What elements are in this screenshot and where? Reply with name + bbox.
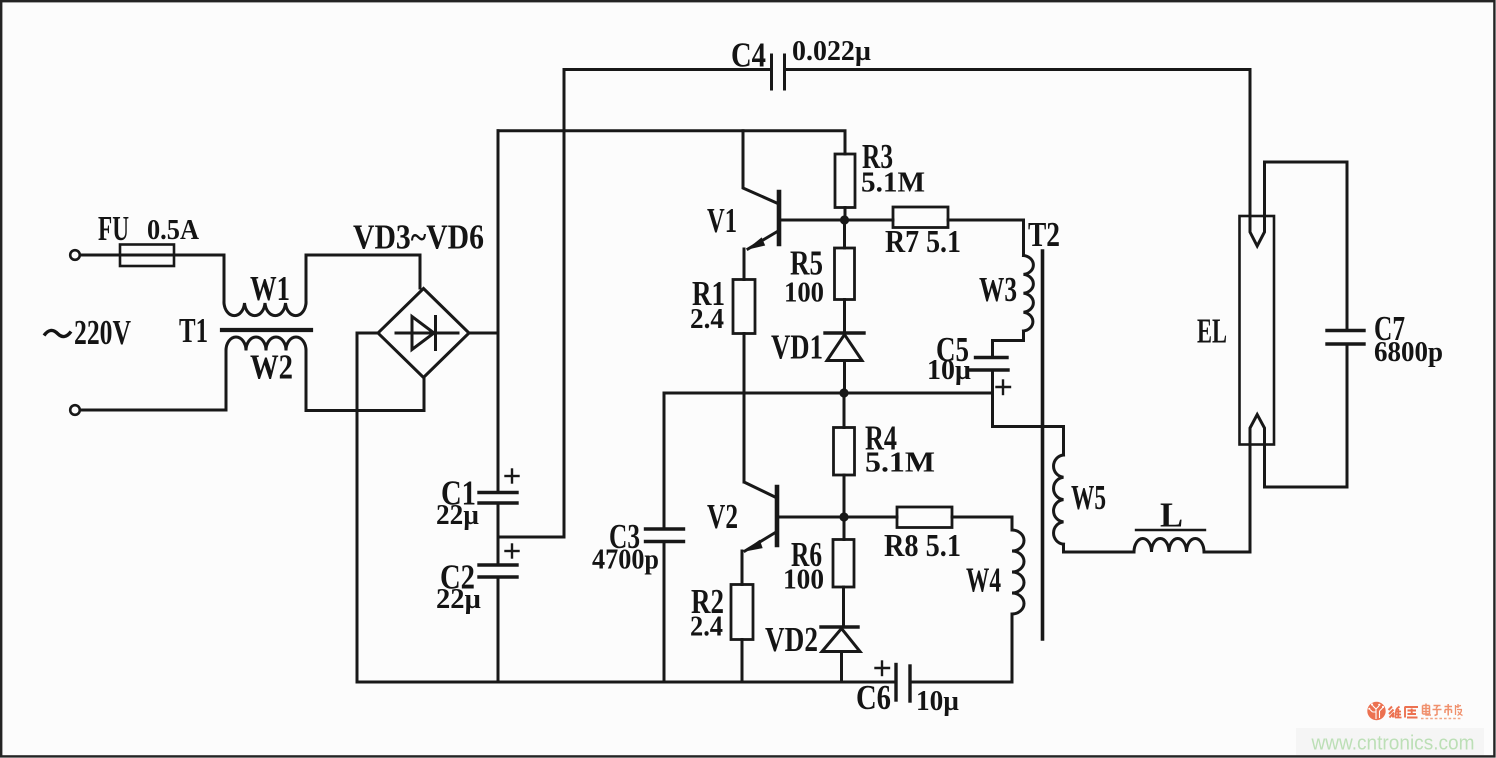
wire C4 riser vertical bbox=[563, 70, 566, 538]
diode VD2 bbox=[821, 627, 860, 652]
svg-text:5.1M: 5.1M bbox=[861, 168, 925, 199]
lamp bottom filament bbox=[1250, 415, 1265, 445]
svg-text:R7 5.1: R7 5.1 bbox=[885, 223, 961, 259]
wire C2 to bottom rail bbox=[497, 577, 500, 682]
wire C3 bottom to rail bbox=[663, 542, 666, 683]
wire W1 right to bridge top bbox=[306, 255, 420, 303]
svg-text:5.1M: 5.1M bbox=[865, 448, 935, 479]
wire W3 to C5 bbox=[993, 331, 1024, 358]
svg-text:L: L bbox=[1160, 497, 1183, 535]
wire R4 to node B2 bbox=[843, 475, 846, 517]
wire R7 to W3 bbox=[948, 220, 1024, 256]
wire top rail right of C4 bbox=[785, 68, 1251, 71]
bridge diode symbol bbox=[396, 317, 458, 350]
transistor V1 base wire bbox=[779, 219, 893, 222]
transformer T2 winding W5 bbox=[1054, 455, 1064, 544]
transformer T1 core bbox=[222, 328, 311, 332]
wire R8 to W4 bbox=[952, 517, 1012, 530]
svg-text:W3: W3 bbox=[979, 271, 1017, 309]
wire C1 to C2 bbox=[497, 503, 500, 565]
capacitor C3 bbox=[646, 529, 684, 542]
svg-text:VD3~VD6: VD3~VD6 bbox=[353, 219, 484, 257]
svg-text:W1: W1 bbox=[250, 270, 290, 308]
resistor R4 bbox=[834, 428, 855, 476]
svg-text:V1: V1 bbox=[707, 202, 737, 240]
svg-text:0.022µ: 0.022µ bbox=[792, 36, 871, 67]
svg-text:22µ: 22µ bbox=[436, 500, 479, 531]
wire W2 right to bridge bottom bbox=[306, 350, 424, 411]
resistor R8 bbox=[897, 507, 952, 528]
terminal input bottom bbox=[70, 405, 80, 415]
svg-text:www.cntronics.com: www.cntronics.com bbox=[1311, 733, 1475, 755]
capacitor C7 bbox=[1327, 331, 1364, 345]
bridge rectifier VD3~VD6 bbox=[378, 289, 469, 378]
wire W4 to C6 bbox=[911, 614, 1012, 682]
label ~220V bbox=[44, 330, 71, 336]
wire terminal to fuse bbox=[80, 254, 120, 257]
capacitor C6 bbox=[896, 665, 910, 702]
transistor V2 emitter bbox=[745, 532, 777, 552]
wire VD1 to node M bbox=[843, 361, 846, 394]
svg-text:10µ: 10µ bbox=[916, 686, 959, 717]
fuse FU bbox=[120, 245, 174, 267]
svg-text:T1: T1 bbox=[179, 312, 208, 350]
terminal input top bbox=[70, 250, 80, 260]
svg-text:2.4: 2.4 bbox=[690, 304, 724, 335]
watermark text dianzishichang bbox=[1421, 704, 1463, 719]
resistor R7 bbox=[893, 207, 948, 228]
wire R1 to V2 collector (crossover) bbox=[743, 334, 746, 483]
node M junction dot bbox=[839, 388, 848, 397]
resistor R3 bbox=[835, 154, 855, 208]
wire main vertical line upper bbox=[497, 131, 500, 493]
transistor V2 base wire bbox=[777, 516, 897, 519]
wire V2 emitter to R2 bbox=[741, 551, 744, 585]
wire node B2 to R6 bbox=[843, 517, 846, 540]
transformer T1 winding W2 bbox=[226, 337, 306, 351]
transformer T2 core bbox=[1041, 251, 1045, 639]
capacitor C4 bbox=[772, 55, 785, 89]
wire node M horizontal bbox=[664, 392, 993, 395]
svg-text:6800p: 6800p bbox=[1374, 337, 1443, 368]
svg-text:C6: C6 bbox=[856, 679, 891, 717]
watermark text weiku bbox=[1389, 707, 1419, 718]
wire C5 to W5 bbox=[993, 370, 1064, 455]
svg-text:W4: W4 bbox=[966, 562, 1001, 600]
wire terminal to W2 left bbox=[80, 350, 226, 410]
C2 plus sign bbox=[506, 545, 519, 558]
C6 plus sign bbox=[876, 662, 890, 676]
bottom rail bbox=[357, 681, 894, 684]
wire R3 to node B1 bbox=[844, 208, 847, 221]
wire C7 to lamp bottom right pin bbox=[1265, 344, 1348, 487]
resistor R2 bbox=[731, 585, 753, 640]
svg-text:100: 100 bbox=[784, 278, 824, 309]
transformer T2 winding W3 bbox=[1024, 256, 1034, 332]
C5 plus sign bbox=[997, 381, 1011, 395]
wire node B1 to R5 bbox=[843, 220, 846, 248]
transistor V1 base bar bbox=[777, 192, 782, 244]
transistor V2 emitter arrow bbox=[745, 541, 762, 552]
svg-text:10µ: 10µ bbox=[927, 355, 971, 386]
wire C3 top to node M wire bbox=[663, 393, 666, 529]
wire VD2 to bottom rail bbox=[840, 652, 843, 683]
lamp EL tube bbox=[1240, 216, 1275, 445]
wire fuse to W1 bbox=[174, 255, 224, 303]
svg-text:FU: FU bbox=[98, 210, 129, 248]
inductor L bbox=[1134, 539, 1204, 553]
wire V1 emitter to R1 bbox=[743, 249, 746, 280]
svg-text:EL: EL bbox=[1197, 313, 1227, 351]
watermark band bbox=[1296, 728, 1484, 755]
svg-text:T2: T2 bbox=[1028, 216, 1060, 254]
svg-text:VD1: VD1 bbox=[771, 329, 823, 367]
transistor V2 collector bbox=[744, 393, 777, 498]
svg-text:W2: W2 bbox=[250, 349, 293, 387]
wire W5 to L bbox=[1064, 544, 1135, 552]
svg-text:W5: W5 bbox=[1071, 479, 1106, 517]
svg-text:VD2: VD2 bbox=[765, 621, 818, 659]
transistor V1 emitter arrow bbox=[748, 238, 765, 249]
svg-text:R8 5.1: R8 5.1 bbox=[884, 527, 961, 563]
wire bridge left vertex to bottom rail bbox=[357, 333, 378, 682]
svg-text:22µ: 22µ bbox=[436, 584, 481, 615]
resistor R1 bbox=[733, 280, 755, 334]
capacitor C2 bbox=[479, 565, 517, 577]
node B1 junction dot bbox=[840, 215, 849, 224]
L label underline bbox=[1136, 529, 1205, 531]
node B2 junction dot bbox=[839, 512, 848, 521]
wire node M to R4 bbox=[843, 393, 846, 428]
transformer T2 winding W4 bbox=[1012, 530, 1024, 614]
wire L to lamp bbox=[1204, 445, 1250, 553]
wire supply rail bbox=[498, 131, 845, 154]
wire R2 to bottom rail bbox=[741, 640, 744, 683]
capacitor C1 bbox=[479, 493, 517, 504]
transformer T1 winding W1 bbox=[224, 303, 306, 316]
wire R6 to VD2 bbox=[842, 587, 845, 627]
resistor R6 bbox=[833, 540, 854, 588]
svg-text:2.4: 2.4 bbox=[690, 612, 723, 643]
lamp top filament bbox=[1250, 216, 1265, 246]
svg-text:220V: 220V bbox=[74, 314, 131, 352]
wire C1-C2 midpoint to C4 riser bbox=[498, 536, 564, 539]
wire top rail left of C4 bbox=[564, 68, 772, 71]
svg-text:C4: C4 bbox=[731, 37, 766, 75]
transistor V1 emitter bbox=[748, 231, 779, 250]
watermark logo circle bbox=[1367, 702, 1385, 720]
wire R5 to VD1 bbox=[843, 300, 846, 334]
resistor R5 bbox=[835, 248, 855, 300]
capacitor C5 bbox=[971, 358, 1009, 371]
svg-text:0.5A: 0.5A bbox=[147, 215, 200, 246]
wire bridge right vertex to main line bbox=[469, 332, 498, 335]
wire top rail to lamp pin bbox=[1249, 70, 1252, 217]
transistor V1 collector bbox=[743, 131, 779, 204]
watermark logo pattern bbox=[1368, 703, 1384, 719]
transistor V2 base bar bbox=[775, 487, 780, 545]
svg-text:V2: V2 bbox=[707, 498, 738, 536]
diode VD1 bbox=[825, 333, 864, 361]
wire lamp top right pin to C7 bbox=[1265, 162, 1348, 331]
C1 plus sign bbox=[506, 470, 519, 483]
svg-text:100: 100 bbox=[783, 565, 824, 596]
svg-text:4700p: 4700p bbox=[592, 545, 659, 576]
